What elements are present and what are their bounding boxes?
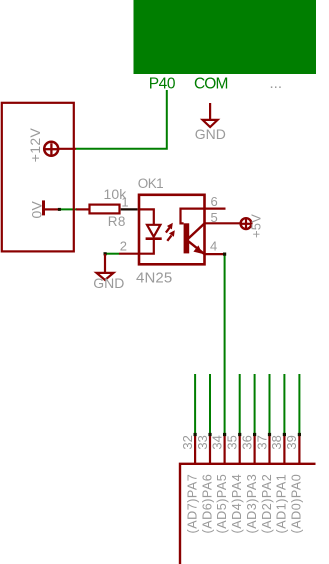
svg-text:(AD5)PA5: (AD5)PA5 [215, 474, 229, 534]
LED cathode lead to pin 2 [139, 240, 154, 254]
wire: 0V net to resistor [60, 208, 78, 210]
svg-text:COM: COM [194, 76, 227, 93]
pin stub: 0V symbol [45, 208, 60, 210]
junction dot [58, 208, 61, 211]
svg-text:+5V: +5V [248, 214, 263, 238]
light arrow 2 [167, 230, 175, 241]
pin 5 stub to +5V [205, 222, 241, 224]
svg-text:P40: P40 [149, 76, 176, 93]
phototransistor collector [189, 223, 205, 238]
connector pin 38 stub [283, 434, 285, 464]
connector pin 36 wire [254, 374, 256, 434]
connector pin 34 stub [224, 434, 226, 464]
wire: net P40 from module to +12V supply [76, 90, 167, 149]
svg-text:1: 1 [121, 195, 128, 210]
svg-text:38: 38 [269, 435, 284, 449]
connector pin 39 wire [298, 374, 300, 434]
resistor R8 body [90, 205, 120, 214]
wire: resistor to opto pin 1 (wire over pin, dark) [121, 208, 138, 210]
svg-text:(AD1)PA1: (AD1)PA1 [275, 474, 289, 534]
connector pin 33 stub [209, 434, 211, 464]
svg-text:GND: GND [93, 275, 124, 291]
svg-text:35: 35 [225, 435, 240, 449]
connector pin 36 stub [254, 434, 256, 464]
svg-text:33: 33 [195, 435, 210, 449]
supply symbol +12V (circle with cross) [44, 142, 58, 156]
svg-text:4: 4 [210, 238, 217, 253]
junction dot 37 [268, 433, 271, 436]
ground symbol GND (opto emitter-side net) [97, 254, 114, 280]
svg-text:(AD3)PA3: (AD3)PA3 [245, 474, 259, 534]
pin 4 stub [205, 253, 224, 255]
connector pin 32 wire [194, 374, 196, 434]
supply symbol 0V (bar) [42, 200, 45, 215]
connector pin 35 stub [239, 434, 241, 464]
svg-text:6: 6 [210, 194, 217, 209]
supply symbol +5V (circle with cross) [241, 218, 252, 229]
svg-text:GND: GND [195, 126, 226, 142]
junction dot 39 [298, 433, 301, 436]
svg-text:2: 2 [120, 238, 127, 253]
wire: pin 2 to GND [105, 253, 119, 255]
LED triangle [147, 225, 160, 237]
supply connector box (top-left, cropped) [2, 103, 74, 252]
svg-text:37: 37 [254, 435, 269, 449]
svg-text:R8: R8 [108, 214, 126, 229]
junction dot pin 2 net [104, 252, 107, 255]
svg-text:(AD6)PA6: (AD6)PA6 [200, 474, 214, 534]
wire: opto pin 4 to connector pin 34 [224, 254, 226, 434]
junction dot 35 [238, 433, 241, 436]
connector pin 32 stub [194, 434, 196, 464]
svg-text:+12V: +12V [27, 128, 43, 163]
svg-text:(AD7)PA7: (AD7)PA7 [185, 474, 199, 534]
emitter arrowhead [193, 245, 202, 254]
ground symbol GND (COM net) [203, 103, 218, 127]
connector pin 38 wire [283, 374, 285, 434]
svg-text:OK1: OK1 [138, 176, 163, 191]
junction dot 33 [208, 433, 211, 436]
junction dot 32 [194, 433, 197, 436]
junction dot 38 [283, 433, 286, 436]
svg-text:32: 32 [180, 435, 195, 449]
svg-text:(AD2)PA2: (AD2)PA2 [260, 474, 274, 534]
light arrow 1 [166, 223, 173, 233]
svg-text:36: 36 [239, 435, 254, 449]
svg-text:39: 39 [284, 435, 299, 449]
resistor R8 left lead [76, 208, 90, 210]
pin stub: +12V to box edge [58, 148, 76, 150]
phototransistor base path (pin 6) [181, 209, 226, 224]
LED anode path (pin 1) [139, 209, 154, 224]
svg-text:34: 34 [209, 435, 224, 449]
phototransistor emitter [189, 241, 205, 254]
connector pin 37 wire [269, 374, 271, 434]
svg-text:0V: 0V [29, 201, 45, 219]
svg-text:(AD4)PA4: (AD4)PA4 [230, 474, 244, 534]
connector pin 35 wire [239, 374, 241, 434]
connector pin 33 wire [209, 374, 211, 434]
junction dot 36 [253, 433, 256, 436]
connector pin 37 stub [268, 434, 270, 464]
svg-text:...: ... [270, 75, 283, 92]
phototransistor base bar [184, 223, 190, 253]
LED cathode bar [146, 237, 162, 240]
green module block (cropped component) [134, 0, 317, 74]
junction dot 34 [223, 433, 226, 436]
opto pin 2 stub [119, 253, 139, 255]
svg-text:4N25: 4N25 [136, 269, 172, 286]
connector pin 39 stub [298, 434, 300, 464]
optocoupler OK1 box [139, 195, 205, 264]
connector box (bottom, cropped) [180, 464, 316, 564]
svg-text:(AD0)PA0: (AD0)PA0 [290, 474, 304, 534]
junction dot pin 4 [223, 253, 226, 256]
